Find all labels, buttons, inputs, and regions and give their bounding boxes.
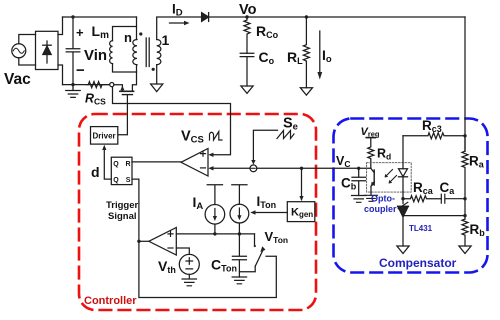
- switch discharge: [254, 234, 256, 245]
- wire bridge to top rail: [58, 17, 63, 35]
- node source (open): [110, 83, 114, 87]
- bridge diode: [46, 41, 48, 63]
- transformer primary winding: [136, 17, 138, 40]
- wire bridge to bottom rail: [58, 65, 63, 85]
- resistor Rd: [368, 138, 374, 169]
- svg-text:Trigger: Trigger: [106, 200, 139, 211]
- ground Co (triangle): [241, 86, 253, 93]
- node Vin bottom: [71, 83, 74, 86]
- resistor Ra: [462, 136, 468, 219]
- arrow source: [120, 86, 124, 91]
- svg-text:Compensator: Compensator: [379, 256, 457, 270]
- svg-text:1: 1: [162, 32, 170, 48]
- svg-text:Opto-: Opto-: [371, 194, 395, 204]
- resistor Rca: [403, 196, 441, 202]
- inductor Lm coil: [110, 41, 113, 64]
- arrow ID: [170, 22, 185, 24]
- resistor RL: [303, 17, 309, 88]
- flipflop box U3: [111, 157, 132, 184]
- svg-text:R: R: [126, 161, 131, 168]
- capacitor Co: [240, 53, 254, 86]
- node ITon bottom: [238, 232, 241, 235]
- capacitor CTon: [232, 234, 246, 277]
- wire Ton comparator output: [139, 240, 149, 242]
- compensator boundary: [334, 119, 488, 273]
- phototransistor: [373, 170, 375, 185]
- svg-text:Vac: Vac: [4, 71, 31, 88]
- node Rca tap: [401, 197, 404, 200]
- AC source Vac: [12, 44, 26, 58]
- wire Se to summing: [253, 130, 277, 161]
- controller boundary: [79, 114, 316, 310]
- resistor RCo: [244, 17, 250, 53]
- wire rail to Ton comparator plus: [176, 233, 254, 235]
- current source ITon: [232, 185, 247, 204]
- waveform icon Se: [277, 131, 294, 139]
- svg-text:TL431: TL431: [409, 224, 433, 233]
- bridge rectifier box: [36, 31, 59, 69]
- waveform icon VCS: [210, 132, 223, 141]
- wire Vac top to bridge: [19, 35, 36, 44]
- transformer core: [146, 38, 149, 67]
- transistor Q1 MOSFET channel: [120, 90, 134, 92]
- svg-text:+: +: [76, 25, 84, 40]
- wire VCS sense: [113, 87, 231, 155]
- node Vo: [245, 15, 248, 18]
- capacitor Ca: [441, 194, 465, 203]
- light arrows: [386, 170, 397, 183]
- summing node circle: [250, 165, 257, 172]
- wire Qbar to driver: [104, 149, 111, 180]
- arrow into driver: [102, 145, 106, 150]
- op-amp comparator Ton: [149, 228, 177, 256]
- arrow ITon to current source: [255, 212, 288, 214]
- wire secondary top: [157, 17, 202, 40]
- svg-text:coupler: coupler: [364, 204, 397, 214]
- node divider Rca: [463, 197, 466, 200]
- capacitor Cb: [352, 168, 365, 195]
- svg-text:Driver: Driver: [93, 132, 116, 141]
- minus sign Ton comparator: [168, 247, 173, 249]
- wire secondary bottom: [156, 65, 158, 84]
- diode output: [202, 13, 209, 22]
- wire RCS right stub: [104, 84, 110, 86]
- svg-text:Signal: Signal: [108, 211, 137, 222]
- svg-text:d: d: [91, 164, 100, 180]
- wire drain from transformer: [132, 72, 136, 91]
- node RL top: [305, 15, 308, 18]
- plus sign Ton comparator: [168, 231, 173, 236]
- wire bottom rail primary: [63, 84, 110, 86]
- arrow Io: [319, 31, 321, 72]
- transformer secondary winding: [157, 40, 161, 65]
- wire S input stub: [132, 179, 139, 241]
- node IA bottom: [213, 232, 216, 235]
- ground Cb: [352, 196, 366, 203]
- ground CTon: [232, 277, 246, 284]
- svg-text:Q: Q: [113, 177, 119, 184]
- capacitor Vin: [66, 17, 80, 85]
- dot primary: [139, 32, 142, 35]
- minus sign comparator: [201, 167, 206, 169]
- svg-text:Q: Q: [113, 161, 119, 168]
- dot secondary: [152, 68, 155, 71]
- source Vth: [179, 254, 199, 274]
- arrow into comparator minus: [208, 166, 213, 170]
- optocoupler dotted box: [367, 163, 412, 192]
- ground RL (triangle): [300, 88, 312, 95]
- wire output rail: [209, 16, 465, 18]
- node Vin top: [71, 15, 74, 18]
- ground Rb (triangle): [459, 246, 471, 254]
- wire top rail primary: [63, 16, 137, 18]
- op-amp comparator VCS: [181, 149, 208, 177]
- wire Vac bottom to bridge: [19, 58, 36, 65]
- LED optocoupler: [402, 136, 404, 169]
- wire trigger down and to switch: [139, 241, 276, 297]
- ground Vth: [182, 274, 196, 285]
- ground (input): [66, 85, 80, 98]
- wire TL431 ref: [405, 215, 466, 217]
- node Kgen tap: [300, 167, 303, 170]
- arrow Se into summing: [251, 160, 255, 165]
- wire source: [114, 85, 123, 92]
- svg-text:Vo: Vo: [239, 2, 257, 18]
- box Kgen: [287, 202, 315, 222]
- ground TL431 (triangle): [397, 246, 409, 254]
- driver box U2: [91, 127, 118, 145]
- resistor Rb: [462, 219, 468, 246]
- ground emitter: [365, 195, 378, 201]
- wire summing to comparator minus: [213, 167, 251, 169]
- svg-text:Controller: Controller: [84, 295, 137, 307]
- node ref: [463, 214, 466, 217]
- node trigger: [137, 240, 140, 243]
- node VC Cb tap: [357, 167, 360, 170]
- supply bar Vreg: [366, 137, 375, 139]
- arrow into Kgen: [299, 196, 303, 201]
- wire R input from comparator: [132, 161, 181, 163]
- wire right rail down: [464, 17, 466, 151]
- wire down to Kgen: [301, 168, 303, 197]
- svg-text:−: −: [76, 62, 85, 79]
- svg-text:n: n: [124, 30, 132, 45]
- current source IA: [207, 185, 222, 205]
- TL431: [398, 202, 408, 208]
- node Rc3 at rail: [463, 134, 466, 137]
- resistor RCS: [87, 82, 105, 88]
- transformer Lm loop: [113, 27, 137, 73]
- ground secondary (triangle): [151, 84, 163, 92]
- svg-text:S: S: [126, 177, 131, 184]
- transistor Q1 gate bar: [122, 94, 132, 96]
- arrow into comparator plus: [208, 153, 213, 157]
- wire gate lead: [118, 95, 127, 135]
- wire Ton comparator minus to Vth: [176, 248, 189, 254]
- wire summing to VC: [257, 167, 371, 169]
- svg-text:Vin: Vin: [84, 47, 107, 64]
- plus sign comparator: [201, 151, 206, 156]
- resistor Rc3: [403, 133, 465, 139]
